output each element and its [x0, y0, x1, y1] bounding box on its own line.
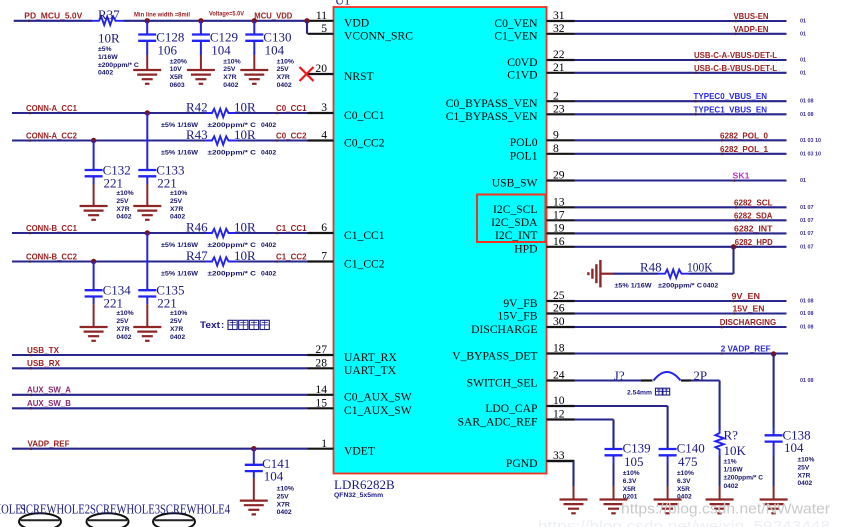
svg-text:0402: 0402	[170, 334, 185, 341]
svg-text:2.54mm: 2.54mm	[627, 390, 652, 397]
capacitor C133	[138, 113, 187, 221]
svg-text:104: 104	[784, 440, 804, 455]
svg-text:0402: 0402	[116, 334, 131, 341]
svg-text:C1_CC2: C1_CC2	[344, 257, 385, 270]
svg-text:R37: R37	[98, 7, 120, 22]
svg-text:CONN-B_CC1: CONN-B_CC1	[26, 223, 77, 233]
svg-text:C0_CC1: C0_CC1	[276, 103, 307, 113]
net label C1_CC1	[276, 223, 307, 234]
svg-text:29: 29	[553, 169, 565, 182]
capacitor C132	[85, 141, 134, 221]
text Voltage=5.0V	[209, 11, 244, 18]
svg-text:X5R: X5R	[623, 486, 636, 493]
svg-text:±200ppm/* C: ±200ppm/* C	[658, 283, 702, 290]
svg-text:01 07: 01 07	[800, 231, 814, 237]
svg-text:±10%: ±10%	[170, 310, 187, 317]
svg-text:UART_TX: UART_TX	[344, 364, 397, 377]
svg-text:25V: 25V	[116, 318, 129, 325]
svg-text:4: 4	[321, 129, 327, 142]
svg-text:±200ppm/* C: ±200ppm/* C	[98, 62, 139, 69]
svg-text:01 03 10: 01 03 10	[800, 151, 821, 157]
svg-text:104: 104	[265, 43, 285, 58]
net CONN-B_CC2 label and wire	[12, 251, 205, 263]
ground for C128	[133, 70, 161, 84]
resistor R46	[161, 219, 276, 249]
svg-text:1/16W: 1/16W	[724, 467, 744, 474]
wire R46 to pin	[237, 232, 308, 234]
svg-text:10K: 10K	[724, 443, 747, 458]
junction on CONN-A_CC1	[145, 110, 150, 115]
svg-text:9V_EN: 9V_EN	[732, 291, 761, 301]
svg-text:C0_BYPASS_VEN: C0_BYPASS_VEN	[446, 97, 538, 110]
wire SWITCH_SEL to jumper	[575, 378, 814, 384]
svg-text:20: 20	[315, 62, 327, 75]
svg-text:Text: Text	[200, 320, 221, 331]
svg-text:13: 13	[553, 196, 565, 209]
svg-text:7: 7	[321, 250, 327, 263]
ground for PGND	[560, 500, 588, 514]
svg-text:X7R: X7R	[223, 74, 236, 81]
capacitor C130	[245, 21, 294, 89]
screw hole symbol SCREWHOLE3	[87, 513, 129, 527]
text note 串口升级	[200, 320, 269, 331]
svg-text:LDO_CAP: LDO_CAP	[485, 402, 537, 415]
svg-text:221: 221	[157, 176, 177, 191]
svg-text:6.3V: 6.3V	[677, 478, 691, 485]
watermark line 2	[538, 518, 830, 527]
svg-text:±20%: ±20%	[170, 58, 187, 65]
svg-text:SCREWHOLE3: SCREWHOLE3	[90, 502, 160, 517]
junction at C130	[252, 18, 257, 23]
capacitor C138	[765, 427, 815, 499]
svg-text:±10%: ±10%	[116, 310, 133, 317]
svg-text:USB_TX: USB_TX	[27, 345, 59, 355]
svg-text:C1_CC2: C1_CC2	[276, 252, 307, 262]
svg-text:POL0: POL0	[510, 136, 538, 149]
svg-text:TYPEC1_VBUS_EN: TYPEC1_VBUS_EN	[694, 104, 768, 114]
pin 19 (I2C_INT) stub and number	[495, 222, 575, 243]
net AUX_SW_A label and wire	[12, 385, 308, 397]
svg-text:0603: 0603	[170, 82, 185, 89]
svg-text:32: 32	[553, 22, 565, 35]
svg-text:106: 106	[158, 43, 178, 58]
svg-text:NRST: NRST	[344, 70, 374, 83]
svg-text:0402: 0402	[261, 242, 276, 249]
pin 16 (HPD) stub and number	[514, 235, 574, 256]
pin 32 (C1_VEN) stub and number	[494, 22, 574, 43]
svg-text:X5R: X5R	[677, 486, 690, 493]
svg-text:X7R: X7R	[170, 326, 183, 333]
svg-text:21: 21	[553, 61, 565, 74]
wire LDO_CAP to C140	[575, 406, 668, 449]
svg-text:R46: R46	[186, 219, 208, 234]
svg-text:28: 28	[315, 357, 327, 370]
watermark line 1	[621, 501, 830, 518]
wire jumper to R?	[691, 381, 720, 431]
svg-text:01 08: 01 08	[800, 299, 814, 305]
svg-text:01 07: 01 07	[800, 218, 814, 224]
net 6282_INT wire and label	[575, 223, 814, 237]
svg-text:221: 221	[157, 296, 177, 311]
svg-text:2 VADP_REF: 2 VADP_REF	[721, 343, 771, 353]
svg-text:X7R: X7R	[798, 472, 811, 479]
screw hole symbol SCREWHOLE4	[153, 513, 195, 527]
svg-text:Min line width =8mil: Min line width =8mil	[134, 11, 190, 18]
svg-text:X5R: X5R	[170, 74, 183, 81]
pin 8 (POL1) stub and number	[510, 142, 575, 163]
wire SAR_ADC_REF to C139	[575, 420, 614, 450]
pin 22 (C0VD) stub and number	[507, 48, 574, 69]
svg-text:MCU_VDD: MCU_VDD	[254, 11, 292, 21]
wire R43 to pin	[237, 139, 308, 141]
pin 10 (LDO_CAP) stub and number	[485, 394, 574, 415]
wire R42 to pin	[237, 112, 308, 114]
svg-text:R?: R?	[724, 428, 739, 443]
net label MCU_VDD	[254, 11, 292, 21]
svg-text:221: 221	[104, 176, 124, 191]
svg-text:5: 5	[321, 22, 327, 35]
svg-text:0402: 0402	[277, 82, 292, 89]
net CONN-A_CC1 label and wire	[12, 103, 205, 114]
capacitor C128	[138, 21, 187, 89]
svg-text:±5% 1/16W: ±5% 1/16W	[161, 271, 199, 278]
pin 1 (VDET) stub and number	[308, 437, 375, 458]
svg-text:V_BYPASS_DET: V_BYPASS_DET	[452, 349, 537, 362]
svg-text:23: 23	[553, 103, 565, 116]
svg-text:25: 25	[553, 289, 565, 302]
net TYPEC1_VBUS_EN wire and label	[575, 104, 814, 118]
svg-text:100K: 100K	[687, 260, 713, 275]
ground for C133	[133, 206, 161, 220]
svg-text:221: 221	[104, 296, 124, 311]
svg-text:6282_INT: 6282_INT	[734, 223, 773, 233]
ground for C135	[133, 327, 161, 341]
svg-text:01: 01	[800, 31, 806, 37]
junction at C141	[251, 446, 256, 451]
pin 14 (C0_AUX_SW) stub and number	[308, 383, 412, 404]
pin 25 (9V_FB) stub and number	[503, 289, 574, 310]
svg-text:https://blog.csdn.net/weixin_5: https://blog.csdn.net/weixin_59243448	[538, 518, 830, 527]
svg-text:AUX_SW_A: AUX_SW_A	[27, 385, 71, 395]
svg-text:SWITCH_SEL: SWITCH_SEL	[467, 376, 538, 389]
svg-text:I2C_INT: I2C_INT	[495, 229, 538, 242]
svg-text:15V_EN: 15V_EN	[733, 304, 765, 314]
svg-text:01 08: 01 08	[800, 311, 814, 317]
svg-text:Voltage=5.0V: Voltage=5.0V	[209, 11, 244, 18]
label SCREWHOLE1	[0, 502, 27, 517]
svg-text:6.3V: 6.3V	[623, 478, 637, 485]
svg-text:01: 01	[800, 19, 806, 25]
svg-text:01: 01	[800, 70, 806, 76]
svg-text:104: 104	[264, 469, 284, 484]
svg-text:01 08: 01 08	[800, 99, 814, 105]
net AUX_SW_B label and wire	[12, 398, 308, 410]
svg-text:DISCHARGING: DISCHARGING	[720, 317, 777, 327]
junction at C129	[198, 18, 203, 23]
svg-text:475: 475	[678, 454, 698, 469]
pin 33 (PGND) stub and number	[506, 449, 575, 470]
no-connect X on pin 20	[300, 67, 314, 81]
svg-text:J?: J?	[614, 368, 625, 383]
svg-text:C1_BYPASS_VEN: C1_BYPASS_VEN	[446, 110, 538, 123]
pin 13 (I2C_SCL) stub and number	[493, 196, 574, 217]
net SK1 wire and label	[575, 171, 807, 185]
net USB_TX label and wire	[12, 345, 308, 357]
value label LDR6282B	[334, 477, 395, 499]
svg-text:C1_AUX_SW: C1_AUX_SW	[344, 404, 412, 417]
pin 20 (NRST) stub and number	[307, 62, 374, 83]
wire R? to ground	[719, 456, 721, 500]
svg-text:18: 18	[553, 342, 565, 355]
svg-text:PGND: PGND	[506, 457, 538, 470]
pin 21 (C1VD) stub and number	[507, 61, 574, 82]
jumper J? 2P	[614, 368, 707, 397]
ground for R?	[706, 500, 734, 514]
svg-text:LDR6282B: LDR6282B	[334, 477, 395, 492]
svg-text:104: 104	[211, 43, 231, 58]
svg-text:31: 31	[553, 9, 565, 22]
svg-text:±1%: ±1%	[724, 459, 737, 466]
junction 6282_HPD to R48	[731, 244, 736, 274]
svg-text:C1VD: C1VD	[507, 69, 537, 82]
svg-text:UART_RX: UART_RX	[344, 351, 397, 364]
svg-text:I2C_SCL: I2C_SCL	[493, 203, 537, 216]
pin 4 (C0_CC2) stub and number	[308, 129, 385, 150]
ground for C134	[80, 327, 108, 341]
ground for C138	[760, 500, 788, 514]
label SCREWHOLE4	[160, 502, 230, 517]
svg-text:R47: R47	[186, 248, 208, 263]
ground for C139	[600, 500, 628, 514]
svg-text:±10%: ±10%	[623, 470, 640, 477]
svg-text:25V: 25V	[170, 198, 183, 205]
svg-text:01 03 10: 01 03 10	[800, 138, 821, 144]
svg-text:0402: 0402	[223, 82, 238, 89]
svg-text:https://blog.csdn.net/NWwater: https://blog.csdn.net/NWwater	[621, 501, 830, 518]
net label C0_CC2	[276, 131, 307, 142]
svg-text:0402: 0402	[798, 480, 813, 487]
svg-text:POL1: POL1	[510, 150, 538, 163]
text Min line width =8mil	[134, 11, 190, 18]
svg-text:C1_CC1: C1_CC1	[276, 223, 307, 233]
capacitor C141	[245, 449, 294, 517]
svg-text:25V: 25V	[170, 318, 183, 325]
svg-text:±200ppm/* C: ±200ppm/* C	[208, 150, 257, 157]
pin 18 (V_BYPASS_DET) stub and number	[452, 342, 574, 363]
net CONN-A_CC2 label and wire	[12, 130, 205, 142]
svg-text:±5% 1/16W: ±5% 1/16W	[615, 283, 653, 290]
svg-text:±5% 1/16W: ±5% 1/16W	[161, 150, 199, 157]
svg-text:VDET: VDET	[344, 445, 375, 458]
svg-text:VDD: VDD	[344, 17, 369, 30]
svg-text:PD_MCU_5.0V: PD_MCU_5.0V	[24, 11, 82, 21]
svg-text:USB-C-B-VBUS-DET-L: USB-C-B-VBUS-DET-L	[694, 63, 777, 73]
svg-text:TYPEC0_VBUS_EN: TYPEC0_VBUS_EN	[694, 91, 768, 101]
op-amp U1 LDR6282B chip body	[334, 7, 547, 474]
svg-text:USB_SW: USB_SW	[492, 176, 538, 189]
resistor R47	[161, 248, 276, 278]
resistor R48	[615, 260, 719, 290]
pin 29 (USB_SW) stub and number	[492, 169, 575, 190]
svg-text:6282_SDA: 6282_SDA	[734, 210, 773, 220]
junction on CONN-B_CC2	[91, 259, 96, 264]
svg-text:X7R: X7R	[116, 206, 129, 213]
net 15V_EN wire and label	[575, 304, 814, 318]
svg-text:25V: 25V	[277, 493, 290, 500]
wire R47 to pin	[237, 260, 308, 262]
pin 9 (POL0) stub and number	[510, 129, 575, 150]
svg-text:0402: 0402	[277, 509, 292, 516]
svg-text:25V: 25V	[798, 464, 810, 471]
svg-text:10R: 10R	[98, 31, 120, 46]
wire PGND to ground	[547, 461, 574, 500]
svg-text:6282_HPD: 6282_HPD	[735, 237, 773, 247]
pin 2 (C0_BYPASS_VEN) stub and number	[446, 89, 575, 110]
svg-text:15: 15	[315, 397, 327, 410]
svg-text:C0_AUX_SW: C0_AUX_SW	[344, 391, 412, 404]
pin 17 (I2C_SDA) stub and number	[491, 209, 574, 230]
pin 11 (VDD) stub and number	[308, 9, 370, 30]
svg-text:QFN32_5x5mm: QFN32_5x5mm	[334, 492, 383, 499]
svg-text:SK1: SK1	[733, 171, 750, 181]
svg-text:6: 6	[321, 221, 327, 234]
svg-text:VADP-EN: VADP-EN	[734, 24, 769, 34]
svg-text:25V: 25V	[223, 66, 236, 73]
ground for C141	[240, 501, 268, 515]
junction node MCU_VDD to pins 11/5	[304, 18, 309, 34]
pin 6 (C1_CC1) stub and number	[308, 221, 385, 242]
svg-text:C0_VEN: C0_VEN	[494, 17, 538, 30]
net 6282_SDA wire and label	[575, 210, 814, 224]
svg-text:30: 30	[553, 315, 565, 328]
svg-text:VADP_REF: VADP_REF	[28, 439, 70, 449]
svg-text:C0VD: C0VD	[507, 56, 537, 69]
svg-text:0402: 0402	[116, 214, 131, 221]
svg-text:01: 01	[800, 178, 806, 184]
svg-text:0402: 0402	[261, 150, 276, 157]
capacitor C134	[85, 262, 134, 341]
net USB-C-A-VBUS-DET-L wire and label	[575, 50, 807, 64]
svg-text:15V_FB: 15V_FB	[498, 309, 538, 322]
svg-text:R43: R43	[186, 127, 208, 142]
net 2_VADP_REF wire and label	[575, 343, 789, 355]
wire R48 row	[613, 273, 734, 275]
svg-text:01: 01	[800, 58, 806, 64]
svg-text:10: 10	[553, 394, 565, 407]
svg-text:I2C_SDA: I2C_SDA	[491, 216, 538, 229]
svg-text:25V: 25V	[277, 66, 290, 73]
svg-text:0402: 0402	[170, 214, 185, 221]
svg-text:USB-C-A-VBUS-DET-L: USB-C-A-VBUS-DET-L	[694, 50, 777, 60]
junction at C128	[145, 18, 150, 23]
svg-text:±10%: ±10%	[677, 470, 694, 477]
svg-text:3: 3	[321, 101, 327, 114]
resistor R? 10K	[715, 427, 763, 490]
svg-text:C0_CC2: C0_CC2	[276, 131, 307, 141]
svg-text:1: 1	[321, 437, 327, 450]
net CONN-B_CC1 label and wire	[12, 223, 205, 235]
screw hole symbol SCREWHOLE2	[19, 513, 61, 527]
svg-text:±10%: ±10%	[223, 58, 240, 65]
pin 26 (15V_FB) stub and number	[498, 302, 575, 323]
svg-text:1/16W: 1/16W	[98, 54, 118, 61]
svg-text:16: 16	[553, 235, 565, 248]
net 6282_HPD wire and label	[575, 237, 814, 251]
svg-text:X7R: X7R	[277, 501, 290, 508]
svg-text:HPD: HPD	[514, 243, 537, 256]
net VADP_REF label and wire	[12, 439, 308, 451]
svg-text:±10%: ±10%	[116, 190, 133, 197]
svg-text:SCREWHOLE2: SCREWHOLE2	[20, 502, 90, 517]
svg-text:12: 12	[553, 408, 565, 421]
svg-text:6282_POL_1: 6282_POL_1	[720, 144, 768, 154]
svg-text:01 08: 01 08	[800, 325, 814, 331]
svg-text:USB_RX: USB_RX	[27, 358, 60, 368]
svg-text:01 07: 01 07	[800, 244, 814, 250]
pin 24 (SWITCH_SEL) stub and number	[467, 369, 575, 390]
net label C1_CC2	[276, 252, 307, 263]
svg-text:11: 11	[316, 9, 327, 22]
pin 15 (C1_AUX_SW) stub and number	[308, 397, 412, 418]
junction 2_VADP_REF to C138	[771, 351, 776, 428]
svg-text:0402: 0402	[261, 122, 276, 129]
svg-text:X7R: X7R	[277, 74, 290, 81]
svg-text:±10%: ±10%	[277, 58, 294, 65]
pin 27 (UART_RX) stub and number	[308, 343, 398, 364]
svg-text:CONN-A_CC1: CONN-A_CC1	[26, 103, 77, 113]
svg-text:0402: 0402	[724, 483, 739, 490]
svg-text:22: 22	[553, 48, 565, 61]
net VADP-EN wire and label	[575, 24, 807, 38]
svg-text:17: 17	[553, 209, 565, 222]
junction on CONN-A_CC2	[91, 138, 96, 143]
resistor R43	[161, 127, 276, 157]
svg-text:26: 26	[553, 302, 565, 315]
net DISCHARGING wire and label	[575, 317, 814, 331]
svg-text:C0_CC2: C0_CC2	[344, 136, 385, 149]
svg-text:25V: 25V	[116, 198, 129, 205]
net 6282_SCL wire and label	[575, 197, 814, 211]
pin 28 (UART_TX) stub and number	[308, 357, 397, 378]
pin 31 (C0_VEN) stub and number	[494, 9, 574, 30]
svg-text:DISCHARGE: DISCHARGE	[471, 323, 537, 336]
svg-text:105: 105	[624, 454, 644, 469]
pin 7 (C1_CC2) stub and number	[308, 250, 385, 271]
svg-text:24: 24	[553, 369, 565, 382]
ground for C132	[80, 206, 108, 220]
svg-text:19: 19	[553, 222, 565, 235]
pin 12 (SAR_ADC_REF) stub and number	[458, 408, 575, 429]
svg-text:CONN-B_CC2: CONN-B_CC2	[26, 251, 77, 261]
net label C0_CC1	[276, 103, 307, 114]
pin 23 (C1_BYPASS_VEN) stub and number	[446, 103, 575, 124]
svg-text:U1: U1	[335, 0, 350, 8]
svg-text:6282_SCL: 6282_SCL	[734, 197, 773, 207]
svg-text:27: 27	[315, 343, 327, 356]
label SCREWHOLE2	[20, 502, 90, 517]
svg-text:14: 14	[315, 383, 327, 396]
svg-text:±10%: ±10%	[170, 190, 187, 197]
svg-text:X7R: X7R	[116, 326, 129, 333]
net PD_MCU_5.0V label and wire	[14, 11, 92, 23]
svg-text:9V_FB: 9V_FB	[503, 297, 537, 310]
pin 3 (C0_CC1) stub and number	[308, 101, 385, 122]
red highlight box around I2C pins	[477, 195, 546, 243]
svg-text:0402: 0402	[98, 70, 113, 77]
svg-text:R42: R42	[186, 99, 208, 114]
label SCREWHOLE3	[90, 502, 160, 517]
svg-text:2: 2	[553, 89, 559, 102]
